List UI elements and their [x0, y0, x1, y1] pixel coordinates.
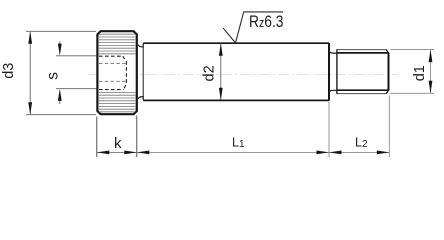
- hex socket inner corner edges (dashed): [99, 64, 126, 82]
- svg-text:d2: d2: [201, 65, 217, 81]
- svg-text:d1: d1: [412, 65, 428, 81]
- svg-text:k: k: [114, 135, 122, 152]
- hex socket (hidden, dashed): [99, 56, 126, 89]
- surface roughness symbol Rz6.3: [223, 12, 283, 43]
- s dimension (socket across flats): [56, 42, 97, 105]
- threaded end d1: [337, 49, 389, 94]
- knurled head outline: [97, 31, 136, 114]
- svg-text:Rz6.3: Rz6.3: [249, 13, 283, 31]
- L2 dimension: [329, 96, 389, 158]
- undercut groove before thread: [329, 51, 337, 92]
- svg-text:d3: d3: [1, 63, 17, 79]
- svg-text:L2: L2: [355, 135, 368, 150]
- d2 dimension (shoulder diameter): [220, 44, 222, 100]
- centerline axis: [88, 74, 398, 76]
- L1 dimension: [137, 151, 329, 153]
- d1 dimension (thread diameter): [390, 50, 435, 94]
- svg-text:L1: L1: [232, 135, 245, 150]
- svg-text:s: s: [45, 72, 62, 80]
- shoulder cylinder d2: [143, 43, 329, 101]
- k dimension (head height): [97, 116, 137, 158]
- knurl hatch lines: [99, 34, 136, 112]
- neck groove at head junction: [138, 43, 143, 100]
- d3 dimension (head diameter): [26, 31, 96, 114]
